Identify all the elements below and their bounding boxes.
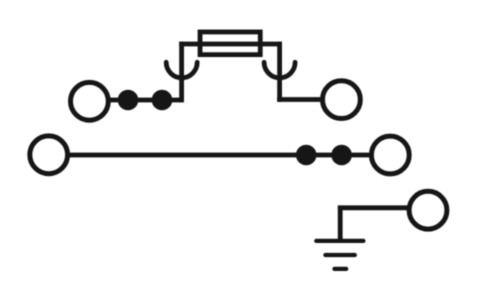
ground symbol: bottom bar <box>335 267 347 271</box>
terminal clamp circle T4 (middle-right) <box>371 136 409 174</box>
junction dot (top row, right) <box>152 90 173 111</box>
wire: riser to terminal clamp T2 (horizontal, y=99.5) <box>277 97 323 102</box>
junction dot (top row, left) <box>118 90 139 111</box>
junction dot (middle row, right) <box>331 145 352 166</box>
terminal clamp circle T5 (bottom-right, PE) <box>409 191 447 229</box>
terminal clamp circle T3 (middle-left) <box>30 136 68 174</box>
wire: middle feed-through bus T3 to T4 <box>67 153 372 158</box>
wire: left riser up to fuse link <box>179 42 184 103</box>
wire: T1 to left fuse riser (horizontal, y=100) <box>107 98 182 103</box>
fuse link wire (horizontal through fuse body) <box>179 42 282 47</box>
ground symbol: top bar <box>316 239 363 243</box>
junction dot (middle row, left) <box>296 145 317 166</box>
ground symbol: middle bar <box>325 253 354 257</box>
wire: ground riser (vertical drop) <box>338 205 343 240</box>
terminal clamp circle T1 (top-left) <box>71 82 109 120</box>
fuse clip contact (left) <box>166 62 197 78</box>
fuse body F1 (rectangle) <box>200 32 260 55</box>
wire: right riser down from fuse link <box>277 42 282 102</box>
fuse clip contact (right) <box>264 62 295 78</box>
wire: T5 to ground drop (horizontal, y=207.8) <box>338 205 410 210</box>
terminal clamp circle T2 (top-right) <box>323 81 361 119</box>
